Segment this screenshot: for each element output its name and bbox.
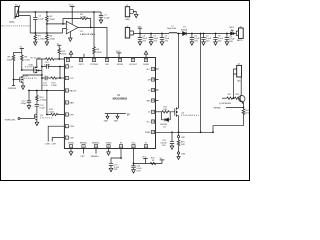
- ground testpoint CSN: [177, 154, 180, 159]
- pin boxes left column: [65, 65, 68, 139]
- svg-text:10kΩ: 10kΩ: [24, 60, 30, 62]
- svg-text:100pF: 100pF: [44, 65, 51, 67]
- wire battery rail drop: [200, 34, 202, 133]
- transistor Q2 FDB4AN06: [175, 107, 200, 132]
- wire stub SENSE+: [95, 149, 97, 154]
- svg-text:22kΩ: 22kΩ: [96, 52, 102, 54]
- resistor R4: [46, 33, 55, 42]
- wire CSN stub: [48, 126, 64, 141]
- svg-text:6: 6: [66, 126, 67, 128]
- svg-text:28: 28: [145, 60, 147, 62]
- inductor L1: [167, 25, 177, 33]
- svg-text:10: 10: [95, 146, 97, 148]
- resistor R6: [21, 52, 30, 70]
- capacitor C13: [160, 132, 174, 149]
- svg-text:SENSE-: SENSE-: [80, 143, 88, 145]
- svg-text:DPP: DPP: [70, 114, 75, 116]
- svg-text:50mΩ: 50mΩ: [245, 113, 251, 115]
- svg-text:14: 14: [145, 146, 147, 148]
- svg-text:B57321V2103J060: B57321V2103J060: [2, 26, 31, 28]
- capacitor C15: [109, 164, 120, 172]
- power VL flag bottom: [160, 158, 165, 163]
- capacitor C6: [190, 34, 201, 46]
- svg-text:SGND: SGND: [68, 143, 74, 145]
- capacitor C14: [35, 104, 46, 114]
- svg-text:N.C.: N.C.: [147, 69, 151, 71]
- pin boxes right column: [151, 67, 154, 133]
- svg-text:22kΩ: 22kΩ: [49, 39, 55, 41]
- power VL flag left divider: [20, 47, 24, 53]
- resistor R15: [177, 138, 185, 152]
- svg-text:24: 24: [93, 60, 95, 62]
- node LX rail: [178, 33, 180, 35]
- svg-text:BATT+: BATT+: [237, 39, 244, 42]
- svg-text:1.3kΩ: 1.3kΩ: [51, 85, 57, 87]
- node R19 junction: [58, 58, 60, 60]
- svg-text:SENSE+: SENSE+: [91, 156, 100, 158]
- node R2 tap: [46, 23, 48, 25]
- svg-text:FDS6875: FDS6875: [24, 78, 38, 80]
- svg-text:CSP: CSP: [80, 156, 85, 158]
- wire SENSE- to R12: [226, 107, 243, 109]
- node riser junctions: [41, 66, 43, 79]
- svg-text:PGND: PGND: [145, 132, 151, 134]
- resistor R13: [47, 109, 65, 116]
- svg-text:OVI: OVI: [70, 66, 74, 68]
- wire R12 return: [213, 126, 243, 133]
- wire U3B gate from R5: [14, 79, 20, 81]
- wire stub DH pin20: [156, 79, 159, 81]
- svg-text:Q1 BC846BV: Q1 BC846BV: [219, 103, 232, 105]
- LED LED1: [229, 27, 235, 35]
- wire EAOUT network bus: [29, 90, 64, 92]
- svg-text:GND: GND: [104, 121, 109, 123]
- svg-text:19: 19: [152, 90, 154, 92]
- wire CSP stub: [52, 138, 64, 142]
- capacitor C16: [131, 164, 142, 174]
- wire stub pin OUTV: [83, 54, 85, 58]
- wire stub LX pin19: [156, 89, 159, 91]
- capacitor C5: [160, 34, 170, 46]
- svg-text:CSN: CSN: [70, 126, 75, 128]
- svg-text:11: 11: [108, 146, 110, 148]
- svg-text:GND: GND: [125, 19, 130, 21]
- svg-text:4.75kΩ: 4.75kΩ: [40, 100, 47, 102]
- connector PWMCNTL stub: [18, 118, 20, 120]
- power VCC flag pin VDD: [116, 51, 122, 57]
- svg-text:21: 21: [152, 69, 154, 71]
- wire J4 drop to divider: [232, 69, 234, 98]
- svg-text:SGND: SGND: [106, 143, 112, 145]
- node R13 junction: [46, 114, 48, 116]
- testpoint CSN: [177, 152, 185, 156]
- svg-text:CSN: CSN: [181, 153, 186, 155]
- wire IN pin to C15: [111, 149, 121, 164]
- ground flag pin CLKOUT: [144, 51, 148, 58]
- node output junctions: [191, 33, 228, 35]
- svg-text:25: 25: [106, 60, 108, 62]
- node U3A gate: [21, 69, 23, 71]
- resistor R2: [46, 12, 56, 33]
- svg-text:EP: EP: [127, 114, 131, 116]
- capacitor C3: [138, 34, 148, 46]
- svg-text:PWRON: PWRON: [8, 88, 17, 90]
- svg-text:10Ω: 10Ω: [163, 109, 167, 111]
- resistor R14: [36, 91, 47, 104]
- wire LX switch node drop: [178, 34, 180, 109]
- svg-text:CSP: CSP: [181, 137, 186, 139]
- svg-text:SENSE+: SENSE+: [92, 143, 101, 145]
- svg-text:VCC: VCC: [116, 51, 121, 53]
- wire compensation riser: [41, 59, 43, 91]
- svg-text:12: 12: [120, 146, 122, 148]
- svg-text:CSP: CSP: [51, 143, 56, 145]
- wire THM bus: [35, 11, 101, 13]
- svg-text:N.C.: N.C.: [147, 121, 151, 123]
- wire non-inverting input from divider: [63, 29, 67, 33]
- svg-text:VCC: VCC: [142, 157, 147, 159]
- node R5 tap: [13, 79, 15, 81]
- capacitor C7: [201, 34, 212, 46]
- svg-text:MAX1958/1B: MAX1958/1B: [113, 97, 128, 100]
- wire divider bus: [30, 32, 62, 34]
- svg-text:VIN: VIN: [138, 26, 142, 28]
- wire stub N.C. pin21: [156, 68, 159, 70]
- ground U3B source: [21, 86, 25, 89]
- svg-text:2: 2: [66, 78, 67, 80]
- wire stub BST pin18: [156, 100, 159, 102]
- wire L1 to D1: [177, 33, 183, 35]
- svg-text:22kΩ: 22kΩ: [50, 19, 56, 21]
- svg-text:-: -: [67, 23, 68, 26]
- resistor R11: [162, 107, 175, 114]
- capacitor C12: [21, 91, 32, 110]
- pin boxes bottom row: [69, 145, 147, 148]
- power flag pin VL top: [69, 51, 73, 58]
- resistor R16: [150, 158, 156, 165]
- wire DL gate drive: [156, 111, 163, 113]
- svg-text:CSP: CSP: [70, 138, 75, 140]
- svg-text:8: 8: [71, 146, 72, 148]
- svg-text:2N7002: 2N7002: [40, 118, 53, 120]
- exposed pad EP: [104, 114, 131, 123]
- svg-text:13: 13: [133, 146, 135, 148]
- connector J3: [236, 26, 244, 42]
- wire output rail: [186, 33, 230, 35]
- svg-text:17: 17: [152, 112, 154, 114]
- ground pin SGND8: [69, 149, 73, 156]
- resistor R19: [58, 48, 67, 59]
- svg-text:22: 22: [67, 60, 69, 62]
- svg-text:2.2nF: 2.2nF: [42, 85, 48, 87]
- capacitor C10: [42, 62, 65, 68]
- resistor R3: [34, 33, 45, 42]
- svg-text:OUTV: OUTV: [78, 64, 84, 66]
- svg-text:26: 26: [119, 60, 121, 62]
- resistor R10: [51, 67, 60, 80]
- thermistor R1 (NTC): [2, 5, 31, 28]
- svg-text:10µH 10A: 10µH 10A: [167, 27, 177, 30]
- svg-text:EAN: EAN: [70, 101, 75, 104]
- ground for R3: [34, 42, 38, 45]
- wire CLP pin2: [60, 77, 64, 79]
- svg-text:16: 16: [152, 121, 154, 123]
- capacitor C4: [149, 34, 159, 46]
- capacitor C11: [42, 76, 51, 80]
- svg-text:0.1µF: 0.1µF: [104, 17, 110, 19]
- node rail junctions: [139, 33, 163, 35]
- svg-text:20: 20: [152, 79, 154, 81]
- svg-text:CSN: CSN: [45, 143, 50, 145]
- svg-text:FDS6875: FDS6875: [25, 67, 39, 69]
- svg-text:SENSE-: SENSE-: [213, 108, 221, 110]
- wire Q1 base feed: [222, 97, 227, 99]
- transistor U3B (FDS6875 P-FET): [20, 75, 42, 86]
- svg-text:LED: LED: [237, 80, 241, 82]
- wire PGND battery return: [156, 131, 214, 133]
- svg-text:CLP: CLP: [70, 78, 75, 80]
- wire NTC top lead to THM bus: [19, 11, 36, 13]
- power VCC flag op-amp: [69, 5, 75, 25]
- wire stub SENSE-: [83, 149, 85, 154]
- IC U2 MAX1958 outline: [64, 58, 155, 149]
- svg-text:PWMCNTL: PWMCNTL: [5, 119, 17, 121]
- svg-text:B360A: B360A: [181, 28, 188, 31]
- svg-text:1.0MΩ: 1.0MΩ: [80, 17, 87, 19]
- svg-text:15: 15: [152, 132, 154, 134]
- transistor Q3 2N7002: [35, 113, 53, 122]
- svg-text:23: 23: [80, 60, 82, 62]
- svg-text:3: 3: [66, 91, 67, 93]
- power VIN flag: [138, 26, 143, 33]
- wire NTC bottom lead: [19, 16, 31, 33]
- node C10 C11 join: [59, 66, 61, 68]
- svg-text:LMV321M5: LMV321M5: [80, 34, 96, 36]
- svg-text:9: 9: [83, 146, 84, 148]
- connector J2: [125, 26, 133, 38]
- wire op-amp output to EN pin: [78, 28, 107, 58]
- svg-text:0.1µF: 0.1µF: [40, 108, 46, 110]
- svg-text:20kΩ: 20kΩ: [62, 53, 67, 55]
- capacitor C9: [225, 34, 236, 46]
- pin boxes top row: [66, 58, 147, 61]
- capacitor C2: [33, 12, 44, 33]
- svg-text:EAOUT: EAOUT: [70, 89, 78, 92]
- svg-text:1: 1: [66, 67, 67, 69]
- ground for R4: [45, 42, 49, 45]
- svg-text:5: 5: [66, 115, 67, 117]
- node THM junctions: [34, 11, 95, 13]
- svg-text:VCC: VCC: [131, 143, 136, 145]
- svg-text:SGND: SGND: [143, 64, 149, 66]
- power VCC flag bottom: [142, 157, 148, 164]
- wire EAOUT bus drop to R13: [46, 91, 48, 115]
- node feedback tee: [62, 23, 64, 25]
- svg-text:FDB4AN06L: FDB4AN06L: [181, 114, 200, 117]
- wire LED to J3: [234, 33, 237, 35]
- connector J4 LED: [233, 64, 241, 83]
- svg-text:1.27kΩ: 1.27kΩ: [38, 39, 45, 41]
- svg-text:2.2kΩ: 2.2kΩ: [48, 111, 54, 113]
- connector J1: [125, 5, 138, 21]
- wire inverting input from R2 tap: [47, 23, 66, 25]
- svg-text:0.1µF: 0.1µF: [38, 19, 44, 21]
- svg-text:CLKOUT: CLKOUT: [129, 64, 138, 66]
- svg-text:4: 4: [66, 103, 67, 105]
- diode D1 B360A: [181, 27, 188, 36]
- svg-text:7: 7: [66, 138, 67, 140]
- diode D2 1N4148: [160, 112, 170, 129]
- svg-text:VCC: VCC: [69, 5, 74, 7]
- capacitor C8: [213, 34, 224, 46]
- svg-text:1kΩ: 1kΩ: [181, 144, 185, 146]
- border frame: [1, 1, 250, 181]
- svg-text:LED1: LED1: [229, 27, 235, 29]
- resistor R7: [31, 58, 65, 61]
- wire VIN rail: [134, 33, 170, 35]
- power VL flag R19: [57, 44, 62, 49]
- wire R5 R6 top bus: [14, 51, 22, 53]
- node op-amp output: [90, 27, 92, 29]
- resistor R12: [242, 108, 250, 126]
- ground pin SGND11: [107, 149, 111, 156]
- testpoint CSP: [177, 132, 185, 139]
- svg-text:27: 27: [132, 60, 134, 62]
- transistor U3A (FDS6875 P-FET): [22, 59, 42, 73]
- resistor R17: [227, 94, 234, 100]
- svg-text:RT/THM: RT/THM: [90, 64, 98, 66]
- resistor R9 feedback: [63, 14, 91, 27]
- resistor R5: [7, 52, 16, 85]
- resistor R18: [233, 94, 240, 100]
- ground op-amp: [69, 32, 73, 42]
- svg-text:R7 12.1kΩ: R7 12.1kΩ: [31, 58, 41, 60]
- resistor R8: [93, 12, 102, 58]
- op-amp U1: [66, 21, 95, 36]
- svg-text:NTC: NTC: [10, 21, 15, 24]
- svg-text:GND: GND: [114, 121, 119, 123]
- svg-text:18: 18: [152, 100, 154, 102]
- svg-text:MODE: MODE: [117, 64, 124, 66]
- svg-text:6.3V: 6.3V: [137, 170, 142, 172]
- wire VCC pin down: [134, 149, 163, 164]
- ground Q3 source: [35, 122, 39, 125]
- node divider junctions: [34, 32, 47, 34]
- node return junctions: [171, 131, 201, 133]
- svg-text:470pF: 470pF: [21, 103, 28, 105]
- transistor Q1 BC846: [219, 77, 245, 108]
- capacitor C1: [99, 12, 111, 23]
- svg-text:10kΩ: 10kΩ: [7, 60, 13, 62]
